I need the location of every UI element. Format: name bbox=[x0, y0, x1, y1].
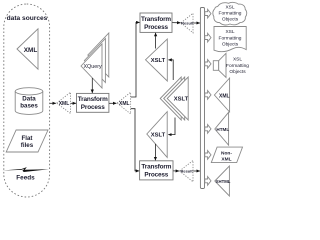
svg-text:Objects: Objects bbox=[222, 42, 239, 48]
svg-text:Formatting: Formatting bbox=[219, 11, 242, 17]
svg-text:XSLT: XSLT bbox=[151, 58, 166, 64]
svg-text:XML: XML bbox=[59, 101, 70, 107]
svg-text:XSL: XSL bbox=[225, 29, 234, 35]
svg-text:Transform: Transform bbox=[78, 96, 108, 103]
svg-text:XSLT: XSLT bbox=[174, 97, 189, 103]
svg-text:Result: Result bbox=[180, 169, 193, 174]
svg-text:Data: Data bbox=[22, 96, 36, 103]
svg-text:Result: Result bbox=[181, 21, 194, 26]
svg-text:XML: XML bbox=[221, 156, 231, 162]
svg-text:Process: Process bbox=[144, 171, 168, 178]
svg-text:Objects: Objects bbox=[229, 69, 246, 75]
svg-text:XSL: XSL bbox=[225, 5, 234, 11]
svg-text:Process: Process bbox=[144, 24, 168, 31]
svg-text:Transform: Transform bbox=[141, 16, 171, 23]
svg-text:Formatting: Formatting bbox=[219, 35, 242, 41]
svg-text:XSLT: XSLT bbox=[151, 133, 166, 139]
svg-text:XML: XML bbox=[219, 93, 230, 99]
svg-text:XSL: XSL bbox=[233, 57, 242, 63]
svg-text:XHTML: XHTML bbox=[216, 179, 231, 184]
svg-text:XML: XML bbox=[119, 101, 130, 107]
svg-text:Objects: Objects bbox=[222, 17, 239, 23]
svg-text:data sources: data sources bbox=[7, 15, 48, 22]
svg-text:Feeds: Feeds bbox=[16, 174, 35, 181]
svg-text:HTML: HTML bbox=[216, 127, 229, 132]
svg-text:Non-: Non- bbox=[221, 150, 232, 156]
svg-text:files: files bbox=[21, 142, 34, 149]
svg-text:Formatting: Formatting bbox=[226, 63, 249, 69]
svg-text:XML: XML bbox=[24, 47, 38, 54]
svg-text:bases: bases bbox=[20, 103, 38, 110]
svg-text:Transform: Transform bbox=[141, 164, 171, 171]
svg-text:Process: Process bbox=[81, 104, 105, 111]
svg-text:Flat: Flat bbox=[21, 135, 32, 142]
svg-text:XQuery: XQuery bbox=[83, 64, 102, 70]
